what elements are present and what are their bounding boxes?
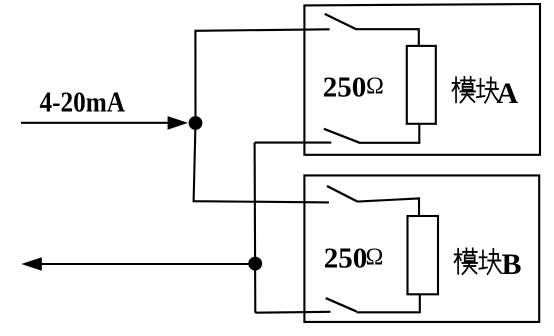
resistor R1 250Ω (module A) — [407, 46, 436, 124]
switch S1 blade (module A top) — [325, 14, 356, 29]
label: 250 (R1 value) — [323, 72, 367, 104]
switch S4 blade (module B bottom) — [326, 298, 357, 312]
label: Ω (R1 unit) — [366, 73, 384, 99]
wire: J1 down then right to switch S3 input — [194, 123, 329, 202]
arrowhead: output arrow (points left) — [21, 257, 41, 271]
wire: J1 up to switch S1 — [195, 29, 329, 123]
wire: output line to left arrow — [41, 263, 255, 265]
node J1 (junction dot) — [189, 116, 203, 130]
module A box — [304, 4, 540, 155]
label: Ω (R2 unit) — [366, 245, 384, 271]
wire: bus bottom to switch S4 input — [255, 311, 330, 314]
wire: R1 bottom to switch S2 — [359, 124, 420, 143]
module B box — [304, 175, 539, 322]
svg-text:A: A — [497, 77, 519, 110]
node J2 (junction dot) — [248, 257, 262, 271]
svg-text:4-20mA: 4-20mA — [40, 88, 126, 119]
switch S2 blade (module A bottom) — [324, 129, 359, 143]
resistor R2 250Ω (module B) — [408, 216, 439, 294]
label: 模块A (module A name, hand-drawn CJK) — [452, 77, 518, 110]
switch S3 blade (module B top) — [327, 186, 358, 202]
svg-text:Ω: Ω — [366, 245, 384, 271]
wire: vertical bus x=255 (S2 input down through J2 to S4 input) — [254, 143, 257, 313]
svg-text:250: 250 — [324, 242, 368, 274]
label: 250 (R2 value) — [324, 242, 368, 274]
svg-text:250: 250 — [323, 72, 367, 104]
wire: S2 input from vertical bus — [255, 142, 332, 144]
label: 4-20mA — [40, 88, 126, 119]
wire: S4 to R2 bottom — [357, 295, 420, 313]
wire: 4-20mA input line — [21, 122, 170, 124]
svg-text:Ω: Ω — [366, 73, 384, 99]
svg-text:B: B — [502, 248, 522, 281]
wire: S3 to R2 top — [358, 198, 420, 216]
arrowhead: input arrow (points right) — [168, 116, 188, 130]
wire: S1 to R1 top — [355, 29, 418, 46]
label: 模块B (module B name, hand-drawn CJK) — [455, 248, 522, 281]
